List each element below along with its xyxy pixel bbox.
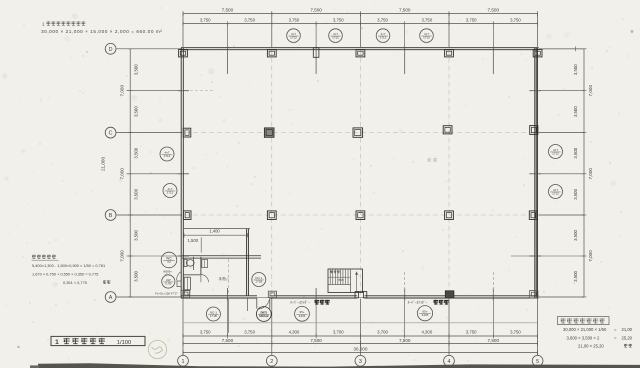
columns on grid B bbox=[183, 211, 537, 220]
door label circle ow1 bbox=[295, 306, 310, 321]
warehouse faint label bbox=[427, 157, 438, 164]
svg-text:3: 3 bbox=[359, 359, 362, 365]
svg-text:3,750: 3,750 bbox=[244, 17, 255, 22]
bottom dimension line 7,500 row bbox=[183, 338, 538, 346]
right calc line2 bbox=[567, 335, 633, 340]
top wall half-grid girt ticks bbox=[227, 47, 493, 75]
svg-text:1,500: 1,500 bbox=[188, 238, 199, 243]
svg-text:3,500: 3,500 bbox=[134, 106, 139, 117]
stairs bbox=[328, 269, 363, 293]
svg-text:3,500: 3,500 bbox=[573, 271, 578, 282]
svg-text:5: 5 bbox=[536, 359, 539, 365]
svg-text:7,000: 7,000 bbox=[120, 85, 125, 97]
svg-text:7,500: 7,500 bbox=[310, 338, 322, 343]
office north line bbox=[184, 228, 250, 230]
left smoke calc line2 bbox=[32, 271, 98, 276]
svg-text:3,750: 3,750 bbox=[244, 329, 255, 334]
svg-text:3,750: 3,750 bbox=[510, 329, 521, 334]
right wall bbox=[535, 48, 537, 299]
title block 1F plan 1/100 bbox=[51, 336, 145, 345]
svg-text:3,500: 3,500 bbox=[573, 147, 578, 158]
bottom overall dimension 30,000 bbox=[183, 347, 538, 355]
grid 2 dashes in office bbox=[227, 259, 229, 333]
svg-text:3,750: 3,750 bbox=[200, 17, 211, 22]
svg-text:3,500: 3,500 bbox=[134, 64, 139, 75]
svg-text:7,500: 7,500 bbox=[488, 8, 500, 13]
svg-text:7,500: 7,500 bbox=[222, 8, 234, 13]
svg-text:3,750: 3,750 bbox=[466, 17, 477, 22]
door jambs at grid 3 bottom wall bbox=[355, 292, 367, 298]
svg-text:4,300: 4,300 bbox=[421, 329, 432, 334]
right dimension line bbox=[573, 49, 593, 297]
top dimension line 7,500 row bbox=[183, 8, 538, 16]
columns on grid C bbox=[183, 126, 538, 138]
svg-text:A: A bbox=[109, 295, 113, 301]
svg-text:1,400: 1,400 bbox=[209, 228, 220, 233]
svg-text:4,300: 4,300 bbox=[289, 329, 300, 334]
top wall small box at half grid bbox=[313, 48, 319, 58]
bottom wall bbox=[181, 296, 539, 298]
svg-text:7,000: 7,000 bbox=[588, 85, 593, 97]
office east wall bbox=[247, 229, 249, 311]
grid bubbles 1-5 bottom bbox=[178, 355, 543, 366]
toilet fixture bbox=[184, 259, 194, 266]
svg-text:ｵｰﾊﾞｰｽﾗｲﾀﾞｰ: ｵｰﾊﾞｰｽﾗｲﾀﾞｰ bbox=[290, 300, 310, 305]
svg-text:3,700: 3,700 bbox=[377, 329, 388, 334]
svg-text:2: 2 bbox=[270, 359, 273, 365]
svg-text:3,500: 3,500 bbox=[573, 106, 578, 117]
svg-text:C: C bbox=[109, 131, 113, 137]
svg-text:4: 4 bbox=[448, 359, 451, 365]
dim 1,500 bbox=[188, 237, 202, 252]
dim 1,400 bbox=[184, 228, 248, 237]
beam label circles right bbox=[549, 145, 563, 199]
svg-text:3,500: 3,500 bbox=[573, 230, 578, 241]
svg-text:B: B bbox=[109, 213, 113, 219]
grid row extension lines bbox=[117, 49, 585, 297]
door label circle left bbox=[162, 270, 175, 289]
left smoke calc line1 bbox=[32, 263, 105, 268]
svg-text:7,500: 7,500 bbox=[399, 338, 411, 343]
top dimension line 3,750 row bbox=[183, 17, 538, 25]
wc stall partition bbox=[183, 257, 201, 275]
svg-text:3,500: 3,500 bbox=[134, 271, 139, 282]
svg-text:倉 庫: 倉 庫 bbox=[427, 157, 438, 164]
svg-text:3,500: 3,500 bbox=[134, 188, 139, 199]
left dimension line bbox=[101, 49, 139, 297]
beam label circles top bbox=[287, 29, 434, 43]
svg-text:7,500: 7,500 bbox=[222, 338, 234, 343]
columns on grid A (bottom wall) bbox=[181, 290, 538, 298]
svg-text:7,500: 7,500 bbox=[399, 8, 411, 13]
grid bubbles D-A left bbox=[105, 43, 116, 302]
svg-text:7,000: 7,000 bbox=[588, 168, 593, 180]
overhead door note 2 bbox=[408, 300, 449, 305]
svg-text:7,500: 7,500 bbox=[488, 338, 500, 343]
svg-text:3,750: 3,750 bbox=[333, 17, 344, 22]
beam label circles left bbox=[160, 147, 177, 198]
area calc title bbox=[42, 21, 85, 26]
svg-text:3,750: 3,750 bbox=[200, 329, 211, 334]
approval stamp bbox=[148, 340, 166, 358]
floor level note bbox=[155, 291, 178, 295]
top-right extension bbox=[539, 46, 584, 51]
svg-text:ｵｰﾊﾞｰｽﾗｲﾀﾞｰ: ｵｰﾊﾞｰｽﾗｲﾀﾞｰ bbox=[408, 300, 428, 305]
svg-text:1/100: 1/100 bbox=[117, 340, 132, 346]
svg-text:D: D bbox=[109, 47, 113, 53]
entrance porch bbox=[257, 298, 270, 309]
sheet bottom dark edge bbox=[30, 363, 640, 368]
svg-text:+7+2: +7+2 bbox=[164, 273, 171, 277]
right calc title box bbox=[558, 317, 610, 325]
svg-text:手洗い: 手洗い bbox=[219, 276, 230, 281]
svg-text:3,750: 3,750 bbox=[377, 17, 388, 22]
canopy line south bbox=[183, 322, 538, 324]
wc door arc bbox=[201, 275, 209, 283]
columns on grid D (top wall) bbox=[179, 50, 542, 57]
urinal fixture bbox=[202, 260, 208, 268]
svg-text:B15: B15 bbox=[339, 278, 345, 282]
room label circle no1 bbox=[252, 273, 266, 287]
hand wash note bbox=[219, 276, 230, 281]
half-grid row tick lines bbox=[127, 91, 585, 256]
door label circle ow2 bbox=[417, 306, 432, 321]
svg-text:30,000 × 21,000 × 1/50: 30,000 × 21,000 × 1/50 bbox=[563, 327, 607, 332]
half-grid dash stubs interior bbox=[405, 272, 494, 294]
column extension lines bottom bbox=[183, 299, 538, 356]
svg-text:30,000 × 21,000 + 15,000 ×: 30,000 × 21,000 + 15,000 × 2,000 = 660.0… bbox=[41, 29, 162, 34]
column extension lines top bbox=[183, 14, 538, 47]
svg-text:1: 1 bbox=[55, 339, 59, 346]
door label circle porch bbox=[256, 307, 271, 322]
svg-text:7,000: 7,000 bbox=[588, 250, 593, 262]
svg-text:3,750: 3,750 bbox=[289, 17, 300, 22]
overhead door note 1 bbox=[290, 300, 330, 305]
side wall half-grid girt ticks bbox=[178, 91, 541, 256]
svg-text:21,000: 21,000 bbox=[101, 157, 106, 171]
svg-text:5,400×1,300 - 1,500×0,900 × 1/: 5,400×1,300 - 1,500×0,900 × 1/50 = 0,781 bbox=[32, 263, 105, 268]
svg-text:25,20: 25,20 bbox=[622, 335, 633, 340]
svg-text:FL=GL+150 4'7'2*: FL=GL+150 4'7'2* bbox=[155, 291, 178, 295]
left smoke calc title bbox=[32, 255, 59, 261]
wc north wall bbox=[182, 256, 261, 258]
right calc line1 bbox=[563, 327, 633, 332]
svg-text:3,500: 3,500 bbox=[134, 147, 139, 158]
grid row lines C and B (interior, dash-dot) bbox=[185, 133, 536, 215]
svg-text:3,750: 3,750 bbox=[421, 17, 432, 22]
svg-text:3,750: 3,750 bbox=[466, 329, 477, 334]
svg-text:21,00: 21,00 bbox=[622, 327, 633, 332]
svg-text:3,500: 3,500 bbox=[573, 64, 578, 75]
svg-text:7,000: 7,000 bbox=[120, 250, 125, 262]
left wall door arc outside bbox=[177, 271, 182, 286]
svg-text:21,00 < 25,20: 21,00 < 25,20 bbox=[578, 343, 604, 348]
svg-text:3,500: 3,500 bbox=[134, 230, 139, 241]
area calc formula bbox=[41, 29, 162, 34]
svg-text:1,670 × 0,750 + 0,550 × 0,350: 1,670 × 0,750 + 0,550 × 0,350 = 0,775 bbox=[32, 271, 98, 276]
wc label circle bbox=[161, 252, 177, 268]
svg-text:0,351 < 0,775: 0,351 < 0,775 bbox=[63, 280, 87, 285]
grid column lines 2-4 (interior, dash-dot) bbox=[272, 50, 449, 296]
svg-text:3,600 × 3,500 × 2: 3,600 × 3,500 × 2 bbox=[567, 335, 601, 340]
left smoke calc line3 bbox=[63, 280, 110, 285]
svg-text:1: 1 bbox=[182, 359, 185, 365]
stairs label text bbox=[328, 271, 351, 282]
svg-text:3,500: 3,500 bbox=[573, 188, 578, 199]
svg-text:3,700: 3,700 bbox=[333, 329, 344, 334]
wc lower fixture bbox=[184, 277, 190, 295]
svg-text:30,000: 30,000 bbox=[353, 347, 367, 352]
svg-text:7,500: 7,500 bbox=[310, 8, 322, 13]
bottom dimension line segments row bbox=[183, 329, 538, 338]
top wall bbox=[181, 48, 539, 50]
svg-text:3,750: 3,750 bbox=[510, 17, 521, 22]
left wall bbox=[181, 48, 183, 299]
bottom wall half-grid girt ticks bbox=[227, 288, 493, 300]
fixture label circle bottom1 bbox=[206, 307, 220, 321]
right calc line3 bbox=[578, 343, 632, 348]
